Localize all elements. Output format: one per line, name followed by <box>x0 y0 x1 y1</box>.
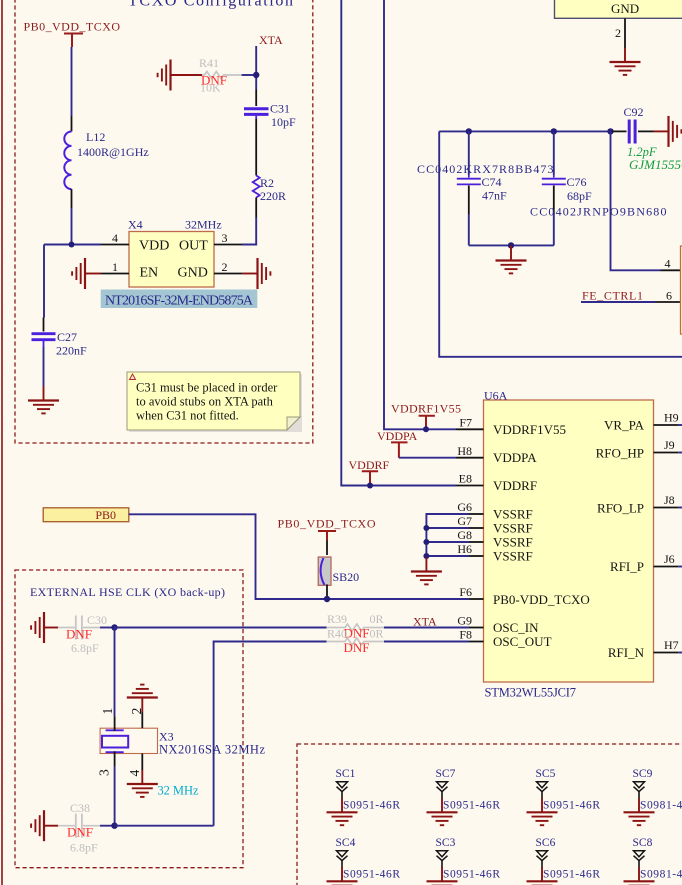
ground below GND pin 2 <box>610 48 641 75</box>
svg-text:TCXO Configuration: TCXO Configuration <box>128 0 293 10</box>
junction node F7 <box>423 426 429 432</box>
pin 6 of RF part <box>655 289 681 303</box>
RF part body (cut at right edge) <box>681 246 682 334</box>
svg-text:220R: 220R <box>260 189 286 203</box>
svg-text:C30: C30 <box>87 613 107 627</box>
wire down to C27 <box>43 245 45 318</box>
svg-text:VDDRF1V55: VDDRF1V55 <box>493 422 566 437</box>
pin wire R2 down <box>255 198 257 218</box>
svg-text:0R: 0R <box>370 627 384 641</box>
wire C92 node down to pin 4 <box>611 131 661 270</box>
svg-text:6.8pF: 6.8pF <box>70 841 98 855</box>
svg-text:6: 6 <box>666 289 672 303</box>
wire C38 node to OSC_OUT riser <box>115 825 214 827</box>
svg-text:R41: R41 <box>199 56 219 70</box>
svg-text:STM32WL55JCI7: STM32WL55JCI7 <box>485 686 577 700</box>
svg-text:PB0: PB0 <box>95 508 116 522</box>
svg-text:H7: H7 <box>664 638 679 652</box>
svg-text:SC8: SC8 <box>633 837 653 849</box>
wire XTA to OSC_IN <box>115 627 327 629</box>
svg-text:10pF: 10pF <box>271 115 296 129</box>
svg-text:47nF: 47nF <box>482 189 507 203</box>
junction node F6/SB20 <box>324 596 330 602</box>
svg-text:SC9: SC9 <box>633 768 653 780</box>
wire riser to OSC_OUT <box>214 642 327 826</box>
VSSRF bus wires <box>426 514 469 558</box>
ground below C27 <box>28 386 59 413</box>
wire R41 to XTA node <box>242 74 257 76</box>
sheet border <box>1 0 3 885</box>
svg-text:RFI_N: RFI_N <box>608 645 645 660</box>
svg-text:SC3: SC3 <box>436 837 456 849</box>
junction node C76 top <box>551 128 557 134</box>
junction nodes VSSRF <box>423 525 429 531</box>
svg-text:G6: G6 <box>457 500 472 514</box>
pin 2 of GND box <box>615 18 625 48</box>
resistor R2 <box>253 176 286 204</box>
svg-text:H6: H6 <box>457 542 472 556</box>
wire X3 pin3 to C38 node <box>114 766 116 826</box>
wire R39 to G9 <box>384 627 469 629</box>
wire vertical down to C38 node <box>114 628 116 717</box>
svg-text:SC7: SC7 <box>436 768 456 780</box>
capacitor C27 <box>32 318 88 358</box>
svg-text:G9: G9 <box>457 614 472 628</box>
svg-text:S0951-46R: S0951-46R <box>443 800 500 812</box>
svg-text:VR_PA: VR_PA <box>604 418 645 433</box>
svg-text:VSSRF: VSSRF <box>493 549 533 564</box>
shield SC3 <box>427 837 501 885</box>
pin 4 of RF part <box>661 257 681 271</box>
svg-text:X3: X3 <box>159 730 174 744</box>
pin 2 X4 <box>214 260 242 274</box>
junction node XTA/R41 <box>253 72 259 78</box>
wire R40 to F8 <box>384 641 469 643</box>
svg-text:F8: F8 <box>459 628 472 642</box>
ground below C74/C76 <box>496 245 527 273</box>
pin wire C31 to R2 <box>255 119 257 176</box>
svg-text:when C31 not fitted.: when C31 not fitted. <box>136 409 239 423</box>
pin 4 X4 <box>101 231 129 245</box>
junction node C92 <box>607 128 613 134</box>
ground at X4 pin 2 <box>242 258 270 289</box>
svg-text:32MHz: 32MHz <box>185 218 222 232</box>
svg-text:SC1: SC1 <box>336 768 356 780</box>
crystal X3 <box>100 728 265 756</box>
svg-text:1400R@1GHz: 1400R@1GHz <box>77 145 149 159</box>
wire C30 to node <box>100 627 115 629</box>
wire H8 <box>399 457 456 459</box>
svg-text:PB0-VDD_TCXO: PB0-VDD_TCXO <box>493 592 590 607</box>
svg-text:S0951-46R: S0951-46R <box>343 800 400 812</box>
bottom-right dashed group box <box>297 744 682 885</box>
svg-text:C31: C31 <box>270 102 290 116</box>
svg-text:S0951-46R: S0951-46R <box>543 800 600 812</box>
ground at X4 pin 1 <box>72 258 101 289</box>
svg-text:OUT: OUT <box>179 239 208 254</box>
wire C74/C76 top rail <box>439 130 612 132</box>
oscillator X4 <box>128 218 222 288</box>
svg-text:1: 1 <box>112 260 118 274</box>
svg-text:EXTERNAL HSE CLK (XO back-up): EXTERNAL HSE CLK (XO back-up) <box>30 585 225 599</box>
capacitor C30 (DNF) <box>58 613 107 655</box>
solder bridge SB20 <box>318 541 359 600</box>
capacitor C74 <box>417 131 554 245</box>
svg-text:GND: GND <box>611 1 639 16</box>
svg-text:GJM1555C1H1R: GJM1555C1H1R <box>629 157 682 172</box>
svg-text:VDDPA: VDDPA <box>493 450 537 465</box>
svg-text:4: 4 <box>112 231 118 245</box>
power symbol VDDPA <box>377 429 418 458</box>
shield SC8 <box>624 837 682 885</box>
wire tips at right pins <box>678 425 682 653</box>
svg-text:J9: J9 <box>664 438 675 452</box>
svg-text:0R: 0R <box>370 612 384 626</box>
wire L12 to junction <box>71 208 73 245</box>
svg-text:3: 3 <box>222 231 228 245</box>
svg-text:to avoid stubs on XTA path: to avoid stubs on XTA path <box>136 395 274 409</box>
power symbol PB0_VDD_TCXO (at SB20) <box>278 517 376 541</box>
svg-text:E8: E8 <box>459 472 472 486</box>
svg-text:DNF: DNF <box>201 73 227 88</box>
svg-text:NT2016SF-32M-END5875A: NT2016SF-32M-END5875A <box>105 294 254 309</box>
svg-text:4: 4 <box>665 257 671 271</box>
capacitor C76 <box>530 131 667 245</box>
wire C27 to ground <box>43 347 45 386</box>
svg-text:SB20: SB20 <box>333 570 360 584</box>
ground below X3 pin 4 <box>127 770 158 797</box>
wire left loop to RF out <box>439 131 682 356</box>
svg-text:CC0402JRNPO9BN680: CC0402JRNPO9BN680 <box>530 205 667 219</box>
shield SC1 <box>327 768 401 825</box>
inductor L12 <box>64 116 148 208</box>
svg-text:S0981-46R: S0981-46R <box>640 800 682 812</box>
svg-text:VDD: VDD <box>139 239 169 254</box>
svg-text:SC4: SC4 <box>336 837 356 849</box>
wire R2 to X4 OUT <box>242 218 256 245</box>
resistor R41 (DNF) <box>199 56 242 95</box>
wire vertical to E8 <box>341 0 456 486</box>
global label PB0 <box>43 508 129 522</box>
svg-text:VDDPA: VDDPA <box>377 429 418 443</box>
TCXO Configuration dashed group box <box>15 0 313 443</box>
ground below VSSRF <box>411 558 442 585</box>
svg-text:XTA: XTA <box>259 33 283 47</box>
ground at C38 <box>31 810 58 841</box>
svg-text:VDDRF: VDDRF <box>493 478 537 493</box>
svg-text:6.8pF: 6.8pF <box>71 641 99 655</box>
svg-text:68pF: 68pF <box>567 189 592 203</box>
svg-text:CC0402KRX7R8BB473: CC0402KRX7R8BB473 <box>417 162 554 176</box>
svg-text:SC5: SC5 <box>536 768 556 780</box>
note C31 must be placed <box>127 372 302 432</box>
svg-text:R40: R40 <box>327 627 347 641</box>
svg-text:RFO_HP: RFO_HP <box>596 446 644 461</box>
power symbol PB0_VDD_TCXO <box>24 20 121 48</box>
junction node E8 <box>367 483 373 489</box>
pin 4 X3 <box>127 754 142 777</box>
svg-text:VSSRF: VSSRF <box>493 521 533 536</box>
ground above X3 pin 2 (inverted) <box>127 685 158 712</box>
svg-text:G7: G7 <box>457 514 472 528</box>
svg-text:220nF: 220nF <box>56 344 87 358</box>
svg-text:SC6: SC6 <box>536 837 556 849</box>
wire PB0 to F6 <box>129 514 469 599</box>
svg-text:3: 3 <box>97 769 112 776</box>
wire junction horizontal <box>44 244 101 246</box>
svg-text:VDDRF: VDDRF <box>349 458 390 472</box>
svg-text:S0951-46R: S0951-46R <box>443 869 500 881</box>
svg-text:2: 2 <box>615 26 621 40</box>
junction node C74 top <box>466 128 472 134</box>
U6A left pin numbers <box>457 416 472 642</box>
svg-text:R2: R2 <box>260 176 274 190</box>
svg-text:NX2016SA 32MHz: NX2016SA 32MHz <box>159 743 265 757</box>
svg-text:G8: G8 <box>457 528 472 542</box>
svg-text:C92: C92 <box>624 105 644 119</box>
wire XTA vertical <box>255 46 257 90</box>
IC U6A body <box>484 389 654 700</box>
svg-text:H9: H9 <box>664 411 679 425</box>
power symbol VDDRF <box>349 458 390 486</box>
svg-text:VSSRF: VSSRF <box>493 507 533 522</box>
svg-text:X4: X4 <box>128 218 143 232</box>
svg-text:R39: R39 <box>327 612 347 626</box>
wire vertical to F7 <box>384 0 456 429</box>
svg-text:S0981-46R: S0981-46R <box>640 869 682 881</box>
svg-text:RFI_P: RFI_P <box>610 559 644 574</box>
svg-text:XTA: XTA <box>413 615 437 629</box>
EXTERNAL HSE CLK dashed group box <box>15 570 243 868</box>
svg-text:J6: J6 <box>664 552 675 566</box>
svg-text:C27: C27 <box>57 330 77 344</box>
svg-text:U6A: U6A <box>484 389 508 403</box>
resistor R40 0R (DNF) <box>327 627 385 656</box>
U6A left pin stubs <box>456 429 484 641</box>
svg-text:FE_CTRL1: FE_CTRL1 <box>582 289 643 303</box>
junction node C38 <box>111 823 117 829</box>
svg-text:DNF: DNF <box>67 824 93 839</box>
svg-text:DNF: DNF <box>344 640 370 655</box>
shield SC6 <box>527 837 601 885</box>
pin 3 X4 <box>214 231 242 245</box>
pin wire to C31 <box>255 90 257 107</box>
svg-text:C38: C38 <box>70 801 90 815</box>
capacitor C92 <box>612 105 682 172</box>
pin 3 X3 <box>97 751 115 776</box>
shield SC7 <box>427 768 501 825</box>
svg-text:H8: H8 <box>457 444 472 458</box>
resistor R39 0R (DNF) <box>327 612 385 641</box>
svg-text:RFO_LP: RFO_LP <box>597 501 644 516</box>
value label NT2016SF-32M-END5875A (selected) <box>101 290 258 309</box>
svg-text:32 MHz: 32 MHz <box>158 784 199 798</box>
shield SC5 <box>527 768 601 825</box>
svg-text:S0951-46R: S0951-46R <box>343 869 400 881</box>
power symbol VDDRF1V55 <box>391 402 461 430</box>
svg-text:C76: C76 <box>567 175 587 189</box>
shield SC4 <box>327 837 401 885</box>
svg-text:VSSRF: VSSRF <box>493 535 533 550</box>
svg-text:DNF: DNF <box>66 627 92 642</box>
U6A right pin stubs <box>654 425 679 653</box>
ground at C92 <box>654 116 682 147</box>
pin 2 X3 <box>129 708 144 728</box>
pin 1 X3 <box>100 708 115 731</box>
svg-text:PB0_VDD_TCXO: PB0_VDD_TCXO <box>278 517 376 531</box>
svg-text:L12: L12 <box>86 130 105 144</box>
wire FE_CTRL1 <box>581 301 655 303</box>
shield SC9 <box>624 768 682 825</box>
svg-text:J8: J8 <box>664 493 675 507</box>
capacitor C38 (DNF) <box>58 801 100 855</box>
U6A right pin numbers <box>664 411 679 653</box>
svg-text:VDDRF1V55: VDDRF1V55 <box>391 402 461 416</box>
U6A left pin names <box>493 422 590 649</box>
wire PB0_VDD_TCXO to L12 <box>71 47 73 116</box>
svg-text:F6: F6 <box>459 585 472 599</box>
svg-text:C74: C74 <box>482 175 502 189</box>
junction node at L12/X4/C27 <box>69 242 75 248</box>
svg-text:PB0_VDD_TCXO: PB0_VDD_TCXO <box>24 20 121 34</box>
wire C74/C76 bottom rail <box>469 244 554 246</box>
svg-text:EN: EN <box>140 266 159 281</box>
ground at C30 <box>31 612 58 643</box>
svg-text:1: 1 <box>100 708 115 715</box>
svg-text:GND: GND <box>178 266 208 281</box>
capacitor C31 <box>244 102 296 130</box>
svg-text:OSC_IN: OSC_IN <box>493 620 539 635</box>
wire C38 to node <box>100 825 115 827</box>
U6A right pin names <box>596 418 645 661</box>
junction node XTA/C30 <box>111 624 117 630</box>
connector GND box (top right) <box>555 0 682 18</box>
svg-text:S0951-46R: S0951-46R <box>543 869 600 881</box>
ground at R41 <box>158 60 202 91</box>
svg-text:C31 must be placed in order: C31 must be placed in order <box>136 381 278 395</box>
svg-text:2: 2 <box>222 260 228 274</box>
svg-text:F7: F7 <box>459 416 472 430</box>
junction node bottom rail <box>508 242 514 248</box>
svg-text:OSC_OUT: OSC_OUT <box>493 634 552 649</box>
svg-text:4: 4 <box>127 770 142 777</box>
pin 1 X4 <box>101 260 129 274</box>
